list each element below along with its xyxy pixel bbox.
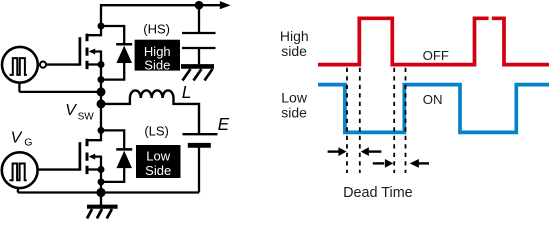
transistor Q2 channel segments [86,139,89,174]
node D1 return dot [98,76,105,83]
node Q2 source dot [98,166,105,173]
svg-text:OFF: OFF [423,48,449,63]
wire VG2 bottom lead [17,188,19,193]
node Q1 drain dot [98,23,105,30]
diode D2 cathode bar [116,148,132,151]
node supply junction dot [195,1,204,10]
ground G1 hatches [183,69,213,81]
supply output arrowhead [220,1,231,9]
wire C1 to ground [198,48,200,64]
source VG1 pulse glyph [10,58,27,75]
svg-text:E: E [218,114,230,134]
svg-text:Dead Time: Dead Time [343,185,413,201]
wire drain to diode D1 [101,26,124,43]
dead time arrow right 2 [373,162,384,164]
svg-text:Low: Low [281,89,308,105]
waveform low side (blue) [318,85,549,133]
transistor Q2 body arrow line [94,157,101,169]
battery E top plate [183,133,218,135]
svg-text:Side: Side [144,58,170,73]
source VG2 pulse glyph [9,164,26,181]
ground G2 stem [100,193,102,206]
source VG1 output bubble [40,62,46,68]
wire top supply rail [101,5,221,26]
svg-text:SW: SW [78,112,95,123]
source VG1 circle [2,47,38,83]
wire Q2 source to bottom rail [100,170,102,193]
diode D2 triangle [116,151,132,168]
capacitor C1 top plate [182,32,216,34]
svg-text:(HS): (HS) [143,22,170,37]
svg-text:V: V [11,130,23,147]
svg-text:Side: Side [145,163,171,178]
svg-text:High: High [280,28,309,44]
svg-text:ON: ON [423,92,443,107]
diode D1 cathode bar [116,43,132,46]
svg-text:Low: Low [146,148,170,163]
label Low Side box [136,145,181,178]
dashed marker line 1 [346,68,348,173]
transistor Q1 drain lead [87,26,101,35]
wire VG1 return to VSW node [19,91,101,93]
transistor Q1 gate lead [46,63,80,65]
ground G2 bar [87,205,118,209]
dead time arrow left 2 [419,162,429,164]
ground G2 hatches [87,209,112,218]
transistor Q2 gate lead [38,168,80,170]
transistor Q1 body arrowhead [89,49,96,55]
transistor Q1 source lead [87,63,101,65]
wire drain to diode D2 [101,130,124,148]
wire E to bottom rail [198,145,200,192]
transistor Q1 channel segments [86,34,89,70]
ground G1 bar [181,64,214,69]
wire bottom rail [18,191,199,193]
node bottom rail dot [96,188,105,197]
waveform high side (red) [318,18,549,64]
diode D1 triangle [116,46,132,63]
svg-text:(LS): (LS) [144,124,169,139]
transistor Q2 drain lead [87,131,101,140]
battery E bottom plate [188,143,211,148]
node inductor junction dot [97,99,106,108]
node Q2 drain dot [98,127,105,134]
node D2 return dot [98,178,105,185]
dashed marker line 3 [393,68,395,173]
transistor Q2 source lead [87,168,101,170]
transistor Q1 body arrow line [94,52,101,64]
wire VSW vertical [100,65,102,131]
svg-text:V: V [65,102,77,119]
wire rail to capacitor C1 [198,5,200,32]
label High Side box [135,40,180,71]
source VG2 circle [2,152,38,188]
wire diode D2 to source node [101,168,124,182]
svg-text:L: L [182,82,192,102]
node VSW dot [97,87,106,96]
svg-text:side: side [281,105,307,121]
capacitor C1 bottom plate [182,47,216,49]
dead time arrow left 1 [369,150,381,152]
dead time arrow right 1 [328,150,340,152]
transistor Q2 body arrowhead [89,154,96,160]
svg-text:G: G [24,136,32,148]
svg-text:side: side [281,43,307,59]
node Q1 source dot [98,61,105,68]
wire diode D1 to source node [101,63,124,80]
inductor L [101,90,199,133]
wire VG1 bottom lead [18,83,20,92]
dashed marker line 4 [405,68,407,173]
dashed marker line 2 [359,68,361,173]
